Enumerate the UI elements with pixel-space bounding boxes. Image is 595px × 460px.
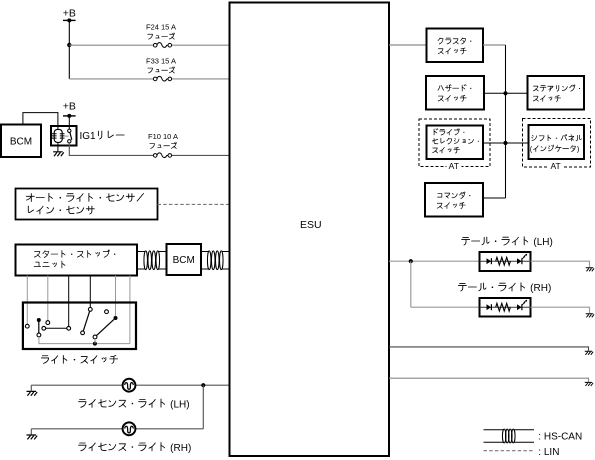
svg-text:AT: AT: [449, 161, 459, 171]
wire cluster switch to bus: [483, 44, 506, 46]
switch box (light switch): [23, 303, 136, 350]
lamp license light RH: [123, 422, 136, 435]
contact isolated: [105, 310, 109, 314]
wire wiper contact to bottom bus: [39, 337, 130, 344]
wire relay contact through F10 to ESU: [69, 143, 229, 155]
power symbol +B (battery feed, top left): [63, 8, 76, 23]
legend LIN dashed line: [484, 450, 535, 452]
svg-text:: LIN: : LIN: [538, 447, 559, 458]
HS-CAN twisted pair start-stop to BCM: [137, 251, 167, 270]
contact pair with link: [42, 326, 71, 330]
module BCM (body control module): [1, 125, 41, 158]
wire license RH: [31, 385, 203, 435]
label tail light LH: [462, 237, 553, 248]
svg-text:F24 15 A: F24 15 A: [146, 23, 176, 32]
label license light RH: [79, 443, 192, 454]
label shift panel line1: [532, 135, 582, 141]
switch blade 2: [93, 316, 117, 344]
contact under wiper: [37, 333, 41, 337]
wire ESU ground line 1: [389, 347, 589, 351]
label fuse (F10): [150, 142, 177, 148]
wire tail LH to ground: [531, 261, 590, 267]
svg-text:F33 15 A: F33 15 A: [146, 56, 176, 65]
label cluster switch: [438, 38, 471, 54]
label F33 15 A: [146, 56, 176, 65]
module BCM (gateway) box: [167, 244, 202, 275]
switch shift panel (indicator) box: [529, 125, 585, 159]
wire ESU ground line 2: [389, 378, 589, 382]
label auto light sensor line1: [26, 193, 143, 201]
label F10 10 A: [148, 132, 178, 141]
switch commander switch box: [425, 183, 483, 217]
label rain sensor line2: [28, 206, 94, 214]
module start-stop unit box: [16, 245, 138, 276]
dashed AT group box (drive selection): [419, 119, 490, 167]
legend HS-CAN twisted pair symbol: [484, 429, 535, 443]
ground (tail LH): [586, 268, 594, 272]
label start-stop line1: [34, 250, 115, 257]
node tail junction: [409, 259, 413, 263]
ground (license RH): [27, 435, 38, 439]
node license junction: [201, 383, 205, 387]
tail light LH internals (diode/resistor/LED): [480, 254, 531, 266]
svg-text:+B: +B: [63, 8, 76, 20]
switch blade 1: [81, 308, 93, 335]
label commander switch: [437, 192, 470, 209]
node bus-drive junction: [503, 141, 507, 145]
label F24 15 A: [146, 23, 176, 32]
svg-text:(RH): (RH): [167, 443, 191, 454]
node junction of F24/F33 feed: [67, 43, 71, 47]
HS-CAN twisted pair BCM to ESU: [201, 251, 230, 270]
svg-text:): ): [577, 145, 579, 154]
wiper blade: [38, 320, 40, 333]
wire relay coil to ground: [57, 142, 59, 151]
wire right signal bus vertical: [505, 45, 507, 198]
wire drive selection to shift panel: [483, 142, 529, 144]
node bus-hazard junction: [503, 91, 507, 95]
wire F33 feed to ESU: [69, 78, 229, 80]
label drive selection switch: [432, 129, 479, 153]
svg-text:(LH): (LH): [167, 399, 189, 410]
module auto-light-sensor / rain-sensor box: [16, 189, 158, 220]
fuse F10 10 A: [153, 153, 171, 158]
power symbol +B (IG1 relay feed): [63, 100, 76, 118]
label start-stop line2: [34, 261, 65, 268]
wire from +B down to F24/F33 branch: [68, 20, 70, 78]
tail light LH box: [480, 252, 531, 271]
module ESU (main control unit): [230, 3, 390, 457]
label hazard switch: [438, 85, 471, 102]
label ESU: [300, 219, 322, 231]
wire LIN bus sensor to ESU (dashed): [158, 203, 230, 205]
wire switch line 5: [115, 276, 117, 317]
wire ESU to cluster switch: [389, 44, 427, 46]
svg-text:: HS-CAN: : HS-CAN: [538, 431, 582, 442]
relay IG1 coil: [52, 129, 65, 142]
switch steering switch box: [528, 76, 585, 110]
tail light RH internals (diode/resistor/LED): [480, 300, 531, 312]
contact (line1 end): [25, 324, 29, 328]
relay IG1 contact: [65, 129, 72, 143]
wire switch line 2: [47, 276, 49, 321]
lamp license light LH: [123, 379, 136, 392]
wire switch line 3: [68, 276, 70, 327]
wire tail RH to ground: [531, 307, 590, 313]
wire license LH: [31, 385, 229, 391]
ground (license LH): [27, 391, 38, 395]
ground (ESU line 1): [585, 351, 593, 355]
wire commander to bus: [483, 197, 506, 199]
dashed AT group box (shift panel): [523, 119, 591, 168]
wire tail RH line: [411, 306, 480, 308]
switch hazard switch box: [426, 76, 484, 110]
label fuse (F24): [148, 33, 175, 39]
label AT (right): [548, 161, 563, 171]
switch drive selection switch box: [427, 126, 484, 160]
label steering switch: [533, 85, 580, 102]
wire hazard to steering switch: [484, 92, 528, 94]
fuse F33 15 A: [153, 76, 171, 81]
node bus junction: [93, 342, 97, 346]
svg-text:IG1: IG1: [80, 131, 97, 142]
svg-text:BCM: BCM: [173, 255, 195, 266]
wire BCM to IG1 relay coil: [23, 113, 58, 130]
wiper pivot dot: [37, 318, 41, 322]
wire +B down to relay contact: [68, 116, 70, 130]
contact (line2 end): [46, 321, 50, 325]
wire switch line 6: [129, 276, 131, 344]
wire switch line 4: [89, 276, 91, 308]
ground (tail RH): [586, 314, 594, 318]
switch cluster switch box: [427, 29, 484, 63]
svg-text:ESU: ESU: [300, 219, 322, 231]
wire tail junction down to RH: [410, 261, 412, 307]
svg-text:AT: AT: [550, 161, 560, 171]
label tail light RH: [458, 283, 551, 294]
wire switch line 1: [26, 276, 28, 325]
legend label LIN: [538, 447, 559, 458]
wire ESU to tail LH: [389, 260, 480, 262]
svg-text:+B: +B: [63, 100, 76, 112]
label fuse (F33): [148, 67, 175, 73]
wire F24 feed to ESU: [69, 44, 229, 46]
legend label HS-CAN: [538, 431, 582, 442]
label shift panel line2: [530, 145, 580, 154]
ground (ESU line 2): [585, 382, 593, 386]
relay IG1 box: [51, 126, 77, 146]
svg-text:BCM: BCM: [10, 136, 32, 147]
fuse F24 15 A: [153, 43, 171, 48]
label AT (left): [447, 161, 462, 171]
svg-text:(LH): (LH): [531, 237, 553, 248]
svg-text:(RH): (RH): [527, 283, 551, 294]
tail light RH box: [480, 298, 531, 317]
svg-text:F10 10 A: F10 10 A: [148, 132, 178, 141]
label IG1 relay: [80, 131, 125, 142]
label license light LH: [79, 399, 190, 410]
label light switch: [41, 355, 117, 363]
ground (IG1 relay coil): [53, 152, 64, 156]
